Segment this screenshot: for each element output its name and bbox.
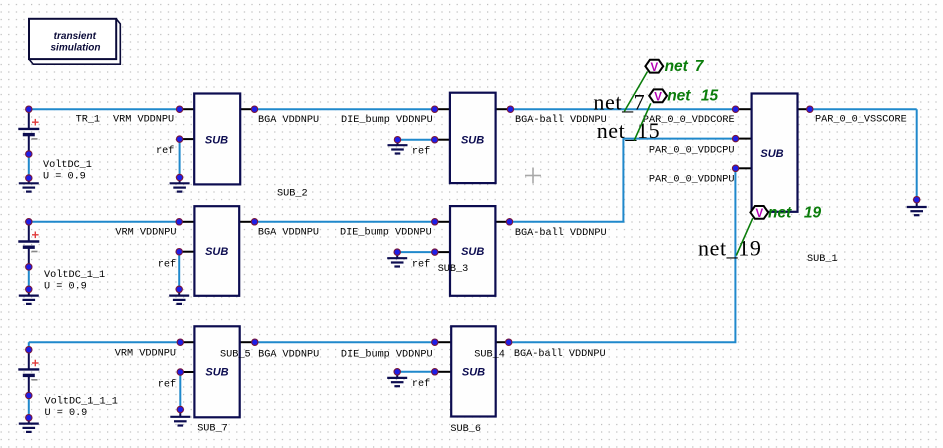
svg-text:ref: ref <box>412 378 430 390</box>
svg-text:DIE_bump VDDNPU: DIE_bump VDDNPU <box>340 227 432 239</box>
svg-text:BGA-ball VDDNPU: BGA-ball VDDNPU <box>514 348 606 360</box>
node SUB_1 out <box>807 106 813 112</box>
svg-text:transient: transient <box>54 31 97 42</box>
wire SUB_1 output to right <box>810 108 917 110</box>
svg-text:ref: ref <box>158 258 176 270</box>
node SUB_1 pin2 <box>732 135 738 141</box>
ref wire row1 right SUB <box>398 139 435 141</box>
ground below row3 left ref <box>170 410 190 426</box>
wire net_19 run right then up to SUB_1 pin3 <box>509 168 736 342</box>
ground below row2 left ref <box>169 289 189 304</box>
wire battery2 to row2 SUB <box>29 221 179 223</box>
wire net_15 run right then up <box>510 139 736 222</box>
node row3 right ref gnd <box>394 369 400 375</box>
node row1 right ref gnd <box>394 137 400 143</box>
node row3 left in <box>177 339 183 345</box>
svg-text:BGA VDDNPU: BGA VDDNPU <box>258 228 319 239</box>
svg-text:BGA-ball VDDNPU: BGA-ball VDDNPU <box>515 114 607 126</box>
svg-text:VRM VDDNPU: VRM VDDNPU <box>115 348 176 359</box>
ground below SUB_2 ref <box>170 178 190 192</box>
svg-text:SUB: SUB <box>462 367 485 379</box>
node row2 left ref gnd <box>176 286 182 292</box>
svg-text:DIE_bump VDDNPU: DIE_bump VDDNPU <box>341 349 433 361</box>
transient simulation block <box>29 19 120 64</box>
node battery3 bottom <box>26 415 32 421</box>
node SUB_2 ref gnd <box>176 174 182 180</box>
svg-text:BGA-ball VDDNPU: BGA-ball VDDNPU <box>515 227 607 239</box>
svg-text:ref: ref <box>156 145 174 157</box>
node row1 right ref <box>432 137 438 143</box>
svg-text:SUB_2: SUB_2 <box>277 189 308 200</box>
probe symbol net 15 <box>649 89 667 103</box>
wire row3 SUB to next <box>255 341 435 343</box>
svg-text:SUB: SUB <box>461 246 484 258</box>
subcircuit row2 left (VRM block) <box>181 206 253 296</box>
svg-text:SUB: SUB <box>205 367 228 379</box>
node battery1 bottom <box>26 175 32 181</box>
node row3 right out <box>506 339 512 345</box>
ref wire row2 right SUB <box>397 251 435 253</box>
svg-text:SUB_3: SUB_3 <box>438 264 469 275</box>
node row2 left in <box>176 219 182 225</box>
ground far right <box>907 200 927 216</box>
svg-text:BGA VDDNPU: BGA VDDNPU <box>258 350 319 361</box>
ref wire SUB_2 <box>179 139 181 177</box>
wire battery1 to SUB_2 <box>29 108 180 110</box>
node battery1 mid <box>26 151 32 157</box>
wire battery3 to row3 SUB <box>29 341 181 343</box>
svg-text:net_7: net_7 <box>593 90 645 115</box>
node SUB_2 ref <box>176 136 182 142</box>
svg-text:VRM VDDNPU: VRM VDDNPU <box>115 228 176 239</box>
node row1 right out <box>507 106 513 112</box>
svg-text:V: V <box>755 208 763 220</box>
subcircuit SUB_2 <box>181 94 253 185</box>
subcircuit SUB_3 (row2 right) <box>436 206 508 296</box>
svg-text:net: net <box>665 58 689 75</box>
voltage source VoltDC_1_1_1 <box>18 350 118 420</box>
svg-text:TR_1: TR_1 <box>76 115 100 126</box>
svg-text:V: V <box>654 91 662 103</box>
svg-text:net: net <box>667 87 691 104</box>
svg-text:VRM VDDNPU: VRM VDDNPU <box>113 115 174 126</box>
svg-text:PAR_0_0_VDDCPU: PAR_0_0_VDDCPU <box>649 145 735 156</box>
node SUB_1 pin1 <box>732 106 738 112</box>
svg-text:ref: ref <box>412 258 430 270</box>
wire to SUB_1 pin 1 <box>510 108 735 110</box>
svg-text:SUB: SUB <box>205 134 228 146</box>
node row3 right in <box>432 339 438 345</box>
node row3 left ref gnd <box>177 406 183 412</box>
subcircuit row1 right (DIE block) <box>436 93 509 183</box>
probe wire net 19 <box>736 218 753 255</box>
node row3 left ref <box>177 369 183 375</box>
node SUB_1 pin3 <box>732 165 738 171</box>
svg-text:SUB: SUB <box>461 134 484 146</box>
node row3 left out <box>252 339 258 345</box>
ground left of row1 right ref <box>388 140 408 154</box>
cursor crosshair <box>525 168 541 184</box>
wire down to ground right <box>916 109 918 200</box>
svg-text:BGA VDDNPU: BGA VDDNPU <box>258 115 319 126</box>
svg-text:VoltDC_1: VoltDC_1 <box>43 159 92 171</box>
node row2 right ref <box>432 249 438 255</box>
node battery2 mid <box>26 264 32 270</box>
svg-text:15: 15 <box>701 87 719 104</box>
node row2 right in <box>432 219 438 225</box>
node battery3 mid <box>26 392 32 398</box>
node row1 right in <box>432 106 438 112</box>
svg-text:PAR_0_0_VSSCORE: PAR_0_0_VSSCORE <box>815 115 907 126</box>
svg-text:U = 0.9: U = 0.9 <box>44 281 87 292</box>
svg-text:U = 0.9: U = 0.9 <box>43 172 86 183</box>
ref wire row3 right SUB <box>397 371 435 373</box>
svg-text:SUB_1: SUB_1 <box>807 254 838 265</box>
wire battery3 riser <box>28 342 30 350</box>
node row2 right ref gnd <box>394 249 400 255</box>
svg-text:7: 7 <box>695 58 705 75</box>
node row2 right out <box>506 219 512 225</box>
svg-text:DIE_bump VDDNPU: DIE_bump VDDNPU <box>341 114 433 126</box>
svg-text:SUB: SUB <box>760 148 783 160</box>
svg-text:ref: ref <box>158 378 176 390</box>
node battery3 top <box>26 347 32 353</box>
node battery2 bottom <box>26 286 32 292</box>
voltage source VoltDC_1 <box>18 109 92 182</box>
probe symbol net 7 <box>645 60 663 74</box>
ground left of row3 right ref <box>387 372 407 386</box>
svg-text:SUB_4: SUB_4 <box>474 350 505 361</box>
ground below VoltDC_1 <box>19 178 39 192</box>
probe wire net 15 <box>634 103 651 140</box>
node SUB_2 out <box>251 106 257 112</box>
wire SUB_2 to next SUB <box>255 108 435 110</box>
ground below VoltDC_1_1_1 <box>19 418 39 432</box>
subcircuit row3 left (SUB_5 block) <box>182 326 253 417</box>
svg-text:SUB: SUB <box>205 246 228 258</box>
svg-text:VoltDC_1_1: VoltDC_1_1 <box>44 269 105 281</box>
svg-text:SUB_6: SUB_6 <box>450 424 481 435</box>
svg-text:SUB_5: SUB_5 <box>220 350 251 361</box>
node row3 right ref <box>432 369 438 375</box>
ground left of row2 right ref <box>387 252 407 266</box>
node row2 left out <box>251 219 257 225</box>
node row2 left ref <box>176 249 182 255</box>
node right ground <box>914 197 920 203</box>
subcircuit row3 right (SUB_6 block) <box>436 326 508 416</box>
voltage source VoltDC_1_1 <box>18 222 105 292</box>
svg-text:VoltDC_1_1_1: VoltDC_1_1_1 <box>45 396 118 408</box>
svg-text:net_15: net_15 <box>597 118 660 143</box>
svg-text:SUB_7: SUB_7 <box>197 424 228 435</box>
svg-text:U = 0.9: U = 0.9 <box>45 408 88 419</box>
ground below VoltDC_1_1 <box>19 289 39 304</box>
probe symbol net 19 <box>750 206 768 220</box>
svg-text:19: 19 <box>804 205 822 222</box>
svg-text:ref: ref <box>412 146 430 158</box>
ref wire row3 left SUB <box>179 372 181 410</box>
ref wire row2 left SUB <box>178 252 180 290</box>
wire row2 SUB to next <box>255 221 435 223</box>
probe wire net 7 <box>624 72 647 112</box>
node SUB_2 in <box>176 106 182 112</box>
node battery2 top <box>26 219 32 225</box>
svg-text:PAR_0_0_VDDNPU: PAR_0_0_VDDNPU <box>649 174 735 185</box>
svg-text:net_19: net_19 <box>698 236 761 261</box>
node battery1 top <box>26 106 32 112</box>
svg-text:V: V <box>650 62 658 74</box>
svg-text:net: net <box>768 205 792 222</box>
svg-text:simulation: simulation <box>50 42 100 53</box>
